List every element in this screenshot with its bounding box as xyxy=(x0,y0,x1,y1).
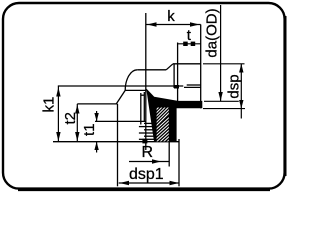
wire thread bore line left xyxy=(140,93,142,125)
wire vertical centerline axis xyxy=(145,13,147,150)
dimension dsp rotated label xyxy=(226,64,244,119)
svg-text:dsp1: dsp1 xyxy=(129,166,164,183)
svg-text:t1: t1 xyxy=(81,123,98,136)
dimension t1 rotated label, outside arrows xyxy=(81,111,99,153)
border frame thicker bottom edge xyxy=(18,188,270,191)
svg-text:k: k xyxy=(167,8,175,25)
section cut black body xyxy=(146,88,202,141)
dimension R xyxy=(129,144,169,164)
dimension k1 rotated label xyxy=(41,87,61,142)
border frame rounded rect xyxy=(3,3,285,189)
section hatch white stripes xyxy=(152,100,178,162)
wire socket outer right edge / dsp1 extension xyxy=(178,139,180,186)
extension line bore bottom for da(OD) xyxy=(204,100,239,102)
border frame thicker right edge xyxy=(284,16,287,176)
wire pipe top edge xyxy=(137,69,166,71)
wire ring edge left xyxy=(173,64,175,88)
dimension t xyxy=(178,27,201,46)
wire ring edge right / t extension xyxy=(177,43,179,102)
thread ladder lines xyxy=(139,123,155,139)
O-ring seal black blob xyxy=(174,85,179,89)
wire thread end reference line xyxy=(95,120,146,122)
wire centerline stubs right upper xyxy=(187,84,201,86)
extension line socket top to dsp xyxy=(203,63,245,65)
dimension t2 rotated label xyxy=(62,104,118,142)
wire thread bore line right xyxy=(143,92,145,122)
wire hex chamfer diagonal xyxy=(116,90,125,104)
svg-text:t2: t2 xyxy=(62,112,79,125)
wire socket top edge xyxy=(173,63,201,65)
wire thread bore top tick xyxy=(141,94,145,96)
bottom face black blob xyxy=(142,139,147,144)
wire horizontal centerline xyxy=(58,85,184,87)
wire end face / k extension xyxy=(200,25,202,109)
extension line socket bottom to dsp xyxy=(203,108,245,110)
dimension k xyxy=(146,8,201,27)
wire R extension line xyxy=(168,142,170,167)
wire bottom face line xyxy=(53,141,179,143)
svg-text:dsp: dsp xyxy=(226,74,243,98)
dimension dsp1 xyxy=(119,166,179,185)
wire chamfer to socket top xyxy=(166,64,173,70)
svg-text:da(OD): da(OD) xyxy=(203,8,220,57)
wire hex top edge xyxy=(125,89,146,91)
wire socket outer left edge / dsp1 extension xyxy=(117,104,119,186)
wire centerline stubs right lower xyxy=(184,86,201,88)
dimension da(OD) rotated label xyxy=(203,5,223,101)
svg-text:k1: k1 xyxy=(41,97,58,113)
thread profile sawtooth on section edge xyxy=(152,101,155,123)
svg-text:R: R xyxy=(142,144,154,161)
wire outer bend arc xyxy=(125,70,137,91)
